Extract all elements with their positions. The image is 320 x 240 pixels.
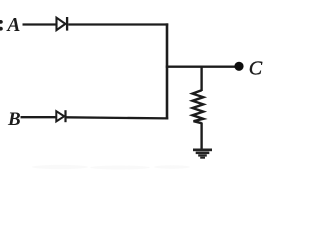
wire output branch to node C [166,65,236,67]
svg-text:A: A [5,15,20,36]
svg-text:C: C [249,58,263,80]
colon fragment at left edge [0,20,3,31]
resistor R1 zigzag [193,90,204,123]
wire resistor top lead [200,67,202,91]
wire resistor bottom lead [200,123,202,149]
svg-text:B: B [7,109,21,130]
wire A to diode D1 [23,23,57,25]
diode D2 triangle [56,111,64,121]
wire D1 to right corner [68,23,168,25]
diode D1 triangle [57,18,66,30]
wire B to diode D2 [21,116,57,118]
wire D2 to vertical bus [67,117,169,118]
diode D2 cathode bar [64,110,66,122]
diode D1 cathode bar [66,17,68,31]
ground symbol [193,149,212,159]
node C dot [234,62,243,71]
faint scan smudge bottom edge [32,165,190,170]
wire vertical right bus [166,23,169,119]
